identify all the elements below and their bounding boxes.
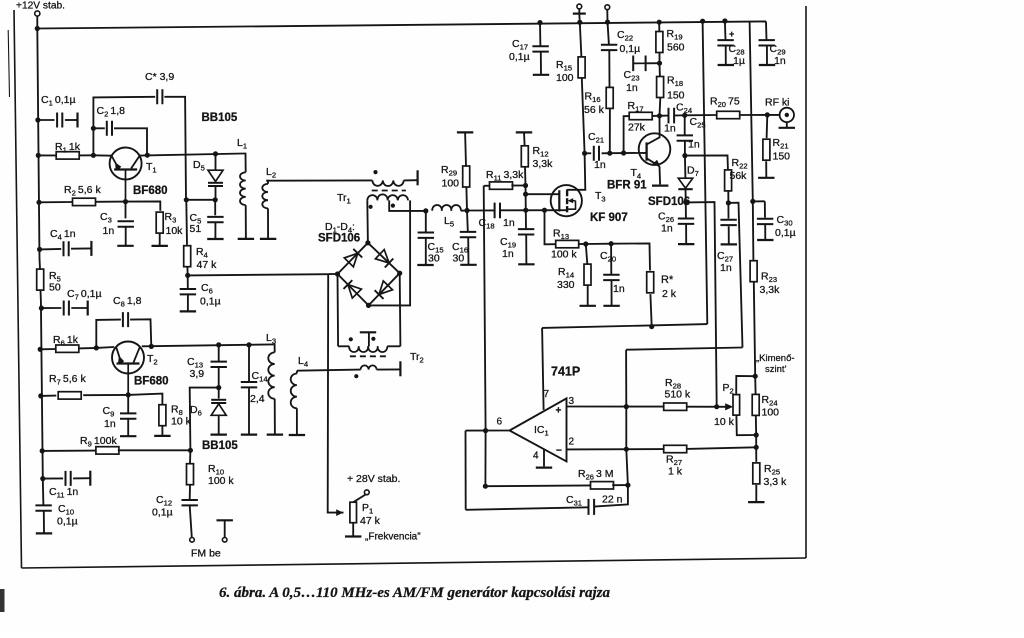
svg-text:BF680: BF680: [134, 376, 169, 388]
resistor R* 2k: [647, 272, 654, 293]
diode D7 SFD106: [684, 156, 687, 178]
node C8-collector: [149, 344, 154, 349]
capacitor C9 1n: [127, 395, 129, 413]
node varactor bias D5-C5: [213, 197, 218, 202]
node R12-R11: [523, 183, 528, 188]
node R17 drop: [621, 150, 626, 155]
capacitor C19 1n: [525, 194, 527, 229]
svg-text:R1 1k: R1 1k: [55, 141, 81, 155]
wire +12V rail: [37, 21, 766, 28]
svg-text:100 k: 100 k: [208, 475, 234, 487]
capacitor C22 0,1µ: [608, 22, 609, 44]
capacitor C25 1n: [684, 115, 686, 135]
svg-text:1n: 1n: [688, 139, 700, 151]
terminal mid circle C22 column: [605, 5, 610, 10]
wire T2 emitter from R6 node: [96, 346, 114, 349]
resistor R5 (in bus): [37, 269, 44, 290]
svg-text:C4 1n: C4 1n: [50, 228, 76, 242]
svg-text:0,1µ: 0,1µ: [509, 51, 530, 63]
capacitor C3 1n: [125, 202, 127, 219]
capacitor C16 30: [466, 211, 469, 232]
node RF-R21: [765, 112, 770, 117]
Tr1 core dashed line: [372, 190, 406, 192]
node T2 base: [126, 392, 131, 397]
terminal RF ki coax: [780, 108, 794, 122]
resistor R12 3,3k: [521, 146, 528, 167]
transformer Tr2 lower winding: [361, 365, 377, 369]
arrow into P2 wiper: [725, 403, 733, 410]
inductor L2: [266, 181, 268, 184]
diode D4 (bottom-right edge): [379, 281, 393, 295]
pin 2 wire: [567, 448, 665, 450]
node bus-R2: [36, 200, 41, 205]
resistor R9 100k: [42, 450, 97, 452]
node R1-C2-base: [91, 153, 96, 158]
svg-text:1n: 1n: [502, 248, 514, 260]
capacitor C27 1n: [727, 203, 729, 219]
node R17-R18-C24-collector: [657, 113, 662, 118]
T4 emitter with arrow: [647, 158, 660, 166]
resistor R4 47k: [185, 200, 188, 245]
resistor R1 1k: [38, 154, 56, 156]
Tr1 primary polarity dot: [373, 170, 377, 174]
capacitor C26 1n: [685, 202, 687, 217]
svg-text:C7 0,1µ: C7 0,1µ: [67, 288, 102, 302]
node C30 stub: [750, 199, 755, 204]
resistor R27 1k: [664, 445, 687, 452]
ground R3: [152, 245, 168, 247]
node rail R15: [577, 20, 582, 25]
wire P2 bottom: [736, 415, 756, 435]
node C21-R16: [607, 151, 612, 156]
wire ring left vertex down to Tr2: [337, 274, 340, 346]
node L5-C16-R29: [464, 208, 469, 213]
node bus-R6: [38, 347, 43, 352]
node bus-C1: [35, 117, 40, 122]
svg-text:+ 28V stab.: + 28V stab.: [347, 473, 400, 485]
ground C14: [241, 434, 257, 436]
Tr1 secondary left to ring top: [366, 200, 369, 242]
wire left supply bus: [37, 29, 39, 259]
node pin6-R11 column: [483, 428, 488, 433]
node C13-D6: [216, 385, 221, 390]
Tr2 center tap with bar: [368, 333, 370, 347]
transistor T2 BF680: [112, 342, 144, 374]
svg-text:0,1µ: 0,1µ: [775, 227, 796, 239]
node R4-C6-bias wire: [185, 273, 190, 278]
svg-text:1n: 1n: [594, 159, 606, 171]
svg-text:30: 30: [453, 253, 465, 265]
node output-R26: [484, 431, 486, 487]
svg-text:1n: 1n: [613, 283, 625, 295]
wire ring left vertex to P1 drop: [328, 273, 337, 275]
svg-text:BB105: BB105: [202, 440, 238, 452]
svg-text:R9 100k: R9 100k: [80, 435, 117, 449]
svg-text:150: 150: [667, 90, 685, 102]
capacitor C24 1n: [660, 115, 669, 117]
wire rail drop x752 to R23 column: [750, 21, 754, 261]
wire ring right vertex down to Tr2: [399, 273, 402, 346]
svg-text:C11 1n: C11 1n: [49, 486, 78, 500]
node rail C28: [722, 18, 727, 23]
wire drop to P1 wiper: [328, 274, 344, 512]
node R6-C8-emitter: [94, 345, 99, 350]
resistor R11 3,3k: [484, 185, 491, 187]
capacitor C29 1n: [759, 40, 775, 45]
resistor R6 1k: [40, 348, 56, 350]
svg-text:R2 5,6 k: R2 5,6 k: [64, 184, 101, 198]
svg-text:1n: 1n: [104, 418, 116, 430]
node R27 junction: [755, 435, 757, 447]
svg-text:R7 5,6 k: R7 5,6 k: [49, 373, 86, 387]
node T1 base: [123, 199, 128, 204]
ground L4: [289, 434, 305, 436]
capacitor C10 0,1µ: [42, 479, 45, 506]
node R26 right: [625, 483, 630, 488]
svg-text:BB105: BB105: [202, 112, 238, 124]
capacitor C6 0,1µ: [187, 275, 189, 288]
wire R11 column: [484, 186, 486, 431]
Tr1 secondary polarity dots: [369, 205, 373, 209]
Tr2 polarity dots upper: [349, 337, 353, 341]
wire T2 collector to C13/C14/L3: [142, 344, 273, 346]
node R15-C21-drain: [582, 151, 587, 156]
wire base node to R3: [126, 201, 161, 210]
wire P1 bottom to ground: [352, 523, 354, 537]
node Kimeno-szint: [753, 374, 758, 379]
svg-text:100: 100: [556, 72, 574, 84]
svg-text:22 n: 22 n: [602, 494, 623, 506]
ground C20: [603, 305, 619, 307]
svg-text:560: 560: [667, 42, 685, 54]
svg-text:3,3k: 3,3k: [533, 158, 554, 170]
ground L2: [260, 238, 276, 240]
transformer Tr1 primary: [372, 180, 403, 186]
svg-text:1n: 1n: [503, 217, 515, 229]
potentiometer P1 body: [350, 502, 357, 523]
terminal +12V: [35, 11, 40, 16]
resistor R10 100k: [189, 450, 191, 463]
node C24-C25-RF: [682, 113, 687, 118]
svg-text:0,1µ: 0,1µ: [200, 296, 221, 308]
ground C9: [120, 435, 136, 437]
capacitor C7 0,1µ: [41, 307, 61, 309]
wire rail to wire-A: [703, 21, 708, 324]
wire L4 to Tr2 lower winding: [297, 370, 361, 371]
svg-text:56k: 56k: [730, 170, 748, 182]
svg-text:47 k: 47 k: [360, 515, 381, 527]
svg-text:KF 907: KF 907: [590, 212, 628, 224]
svg-text:741P: 741P: [551, 365, 580, 379]
capacitor C23 1n: [646, 62, 660, 64]
svg-text:C* 3,9: C* 3,9: [145, 71, 174, 83]
node rail R19: [657, 20, 662, 25]
svg-text:30: 30: [428, 253, 440, 265]
resistor R26 3M: [485, 484, 591, 487]
inductor L4: [296, 371, 298, 374]
svg-text:BF680: BF680: [133, 185, 168, 197]
svg-text:SFD106: SFD106: [318, 233, 360, 245]
ground C26: [678, 243, 694, 245]
wire base node to R8: [128, 394, 162, 405]
svg-text:1n: 1n: [103, 225, 115, 237]
svg-text:3,3k: 3,3k: [760, 284, 781, 296]
svg-text:1n: 1n: [774, 55, 786, 67]
terminal FM be left: [190, 538, 195, 543]
frame bottom border: [22, 558, 807, 568]
capacitor C28 1µ electrolytic: [724, 21, 727, 40]
svg-text:3,9: 3,9: [190, 368, 205, 380]
node C20: [609, 241, 614, 246]
transistor T1 BF680: [110, 148, 142, 180]
ground R14: [580, 305, 596, 307]
ring modulator edges: [338, 243, 368, 274]
pin 6 output wire: [466, 430, 510, 432]
svg-text:7: 7: [544, 389, 550, 400]
svg-text:2: 2: [569, 437, 575, 448]
wire R13 node to C20 and R*: [586, 243, 611, 245]
node ring left: [335, 271, 340, 276]
rail corner to C29: [765, 21, 768, 40]
capacitor C30 0,1µ: [764, 201, 766, 218]
svg-text:C1 0,1µ: C1 0,1µ: [41, 94, 76, 108]
node C2-collector: [145, 153, 150, 158]
resistor R21 150: [766, 115, 769, 138]
svg-text:1 k: 1 k: [668, 466, 683, 478]
svg-text:RF ki: RF ki: [765, 97, 790, 109]
svg-text:szint’: szint’: [765, 364, 787, 375]
node source-R13: [542, 208, 547, 213]
node C25-D7-R22wire: [682, 153, 687, 158]
diode D2 (top-right edge): [375, 250, 389, 263]
svg-text:51: 51: [190, 223, 202, 235]
frame right border: [805, 6, 807, 558]
svg-text:+: +: [729, 29, 734, 39]
Tr1 secondary tap to C15: [389, 200, 426, 211]
resistor R20 75: [717, 111, 740, 118]
resistor R19 560: [658, 22, 660, 31]
node bus-R1: [36, 153, 41, 158]
resistor R25 3,3k: [755, 447, 757, 462]
ground C5: [207, 238, 223, 240]
resistor R13 100k: [545, 210, 556, 244]
capacitor C20 1n: [610, 244, 612, 275]
wire T1 collector to D5/L1: [139, 154, 243, 156]
wire gate: [526, 193, 560, 195]
ground C3: [117, 245, 133, 247]
resistor R3 10k: [156, 212, 163, 233]
resistor R15 100: [580, 22, 582, 57]
svg-text:1n: 1n: [661, 223, 673, 235]
wire R22 node to pin3 drop: [728, 203, 742, 348]
capacitor C14 2,4: [246, 342, 251, 347]
svg-text:C8 1,8: C8 1,8: [113, 295, 142, 309]
svg-text:10 k: 10 k: [714, 416, 735, 428]
inductor L1: [244, 154, 246, 173]
transformer Tr2 upper winding: [338, 345, 349, 347]
svg-text:0,1µ: 0,1µ: [57, 516, 78, 528]
wire +12V terminal to rail: [36, 16, 38, 28]
svg-text:+12V stab.: +12V stab.: [16, 1, 65, 12]
ground D6: [211, 434, 227, 436]
node R19-R18-C23: [657, 61, 662, 66]
svg-text:27k: 27k: [628, 122, 646, 134]
capacitor C31 22n row: [466, 507, 589, 510]
svg-text:10 k: 10 k: [171, 416, 192, 428]
svg-text:100: 100: [442, 178, 460, 190]
svg-text:C2 1,8: C2 1,8: [97, 105, 126, 119]
svg-text:6. ábra. A 0,5…110 MHz-es AM/F: 6. ábra. A 0,5…110 MHz-es AM/FM generáto…: [219, 585, 611, 601]
terminal FM be right with bar: [217, 519, 233, 521]
resistor R8 10k: [159, 405, 166, 426]
capacitor C15 30: [423, 208, 428, 213]
node rail C22: [605, 20, 610, 25]
node ring right: [397, 271, 402, 276]
transistor T3 KF907 MOSFET: [551, 185, 582, 216]
svg-text:100: 100: [762, 407, 780, 419]
node rail drop x702: [700, 19, 705, 24]
svg-text:150: 150: [773, 151, 791, 163]
svg-text:1n: 1n: [664, 123, 676, 135]
ground R8: [154, 435, 170, 437]
svg-text:330: 330: [557, 279, 575, 291]
resistor R29 100 with top bar: [457, 131, 473, 133]
node bus-R9: [40, 448, 45, 453]
wire C13/D6 node to R10 line: [190, 388, 219, 451]
ground L3: [267, 434, 283, 436]
svg-text:3: 3: [569, 396, 575, 407]
svg-text:+: +: [556, 406, 562, 417]
wire output down to C31/R26 row: [465, 431, 467, 510]
capacitor C13 3,9: [216, 342, 221, 347]
resistor R16 56k: [606, 87, 613, 108]
svg-text:6: 6: [497, 417, 503, 428]
resistor R17 27k: [624, 116, 630, 153]
capacitor C21 1n: [585, 152, 592, 154]
capacitor C4 1n: [40, 248, 62, 251]
node P2/R24 bottom: [754, 432, 759, 437]
ground C17: [533, 74, 549, 76]
wire B horizontal: [626, 348, 742, 350]
node gate tap: [525, 186, 527, 195]
wire C* column to D5 node: [186, 199, 215, 201]
ground C15: [417, 264, 433, 266]
wire pin7 drop: [542, 328, 544, 410]
ground C19: [518, 263, 534, 265]
svg-text:3,3 k: 3,3 k: [764, 476, 788, 488]
capacitor C12 0,1µ: [182, 500, 198, 505]
ground R21: [758, 177, 774, 179]
node ring bottom: [366, 303, 371, 308]
node bus-C7: [39, 306, 44, 311]
frame left border: [14, 10, 22, 568]
wire to R22: [685, 155, 728, 169]
svg-text:47 k: 47 k: [197, 259, 218, 271]
svg-text:56 k: 56 k: [584, 104, 605, 116]
ground C6: [180, 310, 196, 312]
svg-text:FM be: FM be: [191, 548, 221, 560]
wire C21 to T4 base: [610, 152, 647, 154]
scan artifact bottom-left blob: [0, 589, 5, 612]
capacitor C11 1n: [40, 476, 45, 481]
op-amp IC1 741P triangle: [510, 398, 567, 461]
T4 collector: [647, 116, 660, 145]
node bus-R7: [38, 393, 43, 398]
wire to R20: [685, 114, 717, 116]
wire C18 to T3 source: [500, 209, 567, 211]
node bus-C4: [37, 247, 42, 252]
potentiometer P2 10k top connection: [736, 376, 755, 394]
svg-text:R*: R*: [661, 274, 674, 286]
pin 7 stem: [543, 409, 545, 411]
svg-text:−: −: [556, 446, 562, 457]
svg-text:„Frekvencia”: „Frekvencia”: [365, 532, 421, 543]
Tr2 core dashed line: [350, 355, 390, 357]
pin 3 wire: [567, 406, 665, 408]
resistor R23 3,3k: [750, 261, 757, 282]
svg-text:BFR 91: BFR 91: [607, 180, 647, 192]
diode D5 varactor BB105: [213, 151, 218, 156]
wire B R22 feed down to pin3: [625, 350, 627, 407]
pin 4 stem and ground: [543, 449, 545, 466]
wire to R*: [611, 243, 650, 270]
capacitor C2 1,8 loop: [93, 128, 104, 155]
node C2-left: [91, 126, 96, 131]
terminal +12V feed mid (circle+bar): [577, 4, 582, 9]
node pin3-wireB: [624, 404, 629, 409]
node pin2 feedback: [624, 447, 629, 452]
wire D7 node to P2 drop: [686, 202, 717, 407]
resistor R2 5,6k: [39, 201, 72, 203]
ground L1: [238, 238, 254, 240]
svg-text:1n: 1n: [720, 262, 732, 274]
svg-text:510 k: 510 k: [665, 389, 691, 401]
wire A +V to R* and pin7: [542, 324, 707, 328]
svg-text:50: 50: [49, 282, 61, 294]
wire pin2 to R26/C31: [626, 407, 628, 486]
Tr1 secondary right down: [369, 200, 411, 305]
ground C27: [721, 243, 737, 245]
terminal +28V: [364, 490, 369, 495]
wire varactor bias to ring left vertex: [188, 274, 329, 275]
svg-text:100 k: 100 k: [551, 249, 577, 261]
T3 drain to R15/C21 node: [567, 153, 585, 190]
wire terminal to P1: [353, 494, 366, 502]
node ring top: [365, 240, 370, 245]
Tr2 polarity dot lower: [354, 374, 358, 378]
resistor R22 56k: [725, 170, 732, 191]
potentiometer P2 body: [733, 395, 740, 416]
inductor L3: [273, 344, 275, 352]
svg-text:2 k: 2 k: [662, 288, 677, 300]
wire T1 emitter from R1 node: [93, 154, 112, 156]
capacitor C1: [38, 119, 55, 121]
svg-text:10k: 10k: [166, 225, 184, 237]
scan artifact top-left margin line: [8, 30, 9, 97]
capacitor C18 1n: [495, 203, 500, 219]
svg-text:1µ: 1µ: [733, 55, 745, 67]
svg-text:R26 3 M: R26 3 M: [578, 468, 614, 482]
node R9-R10 / D6 line: [188, 448, 193, 453]
transformer Tr1 secondary: [367, 194, 408, 200]
wire stub to C30: [753, 200, 765, 202]
transistor T4 BFR91: [639, 133, 671, 165]
capacitor C17 0,1µ: [537, 20, 542, 25]
svg-text:2,4: 2,4: [250, 393, 265, 405]
inductor L5: [432, 205, 461, 211]
node R28-P2drop: [714, 404, 719, 409]
node R* bottom: [649, 324, 654, 329]
